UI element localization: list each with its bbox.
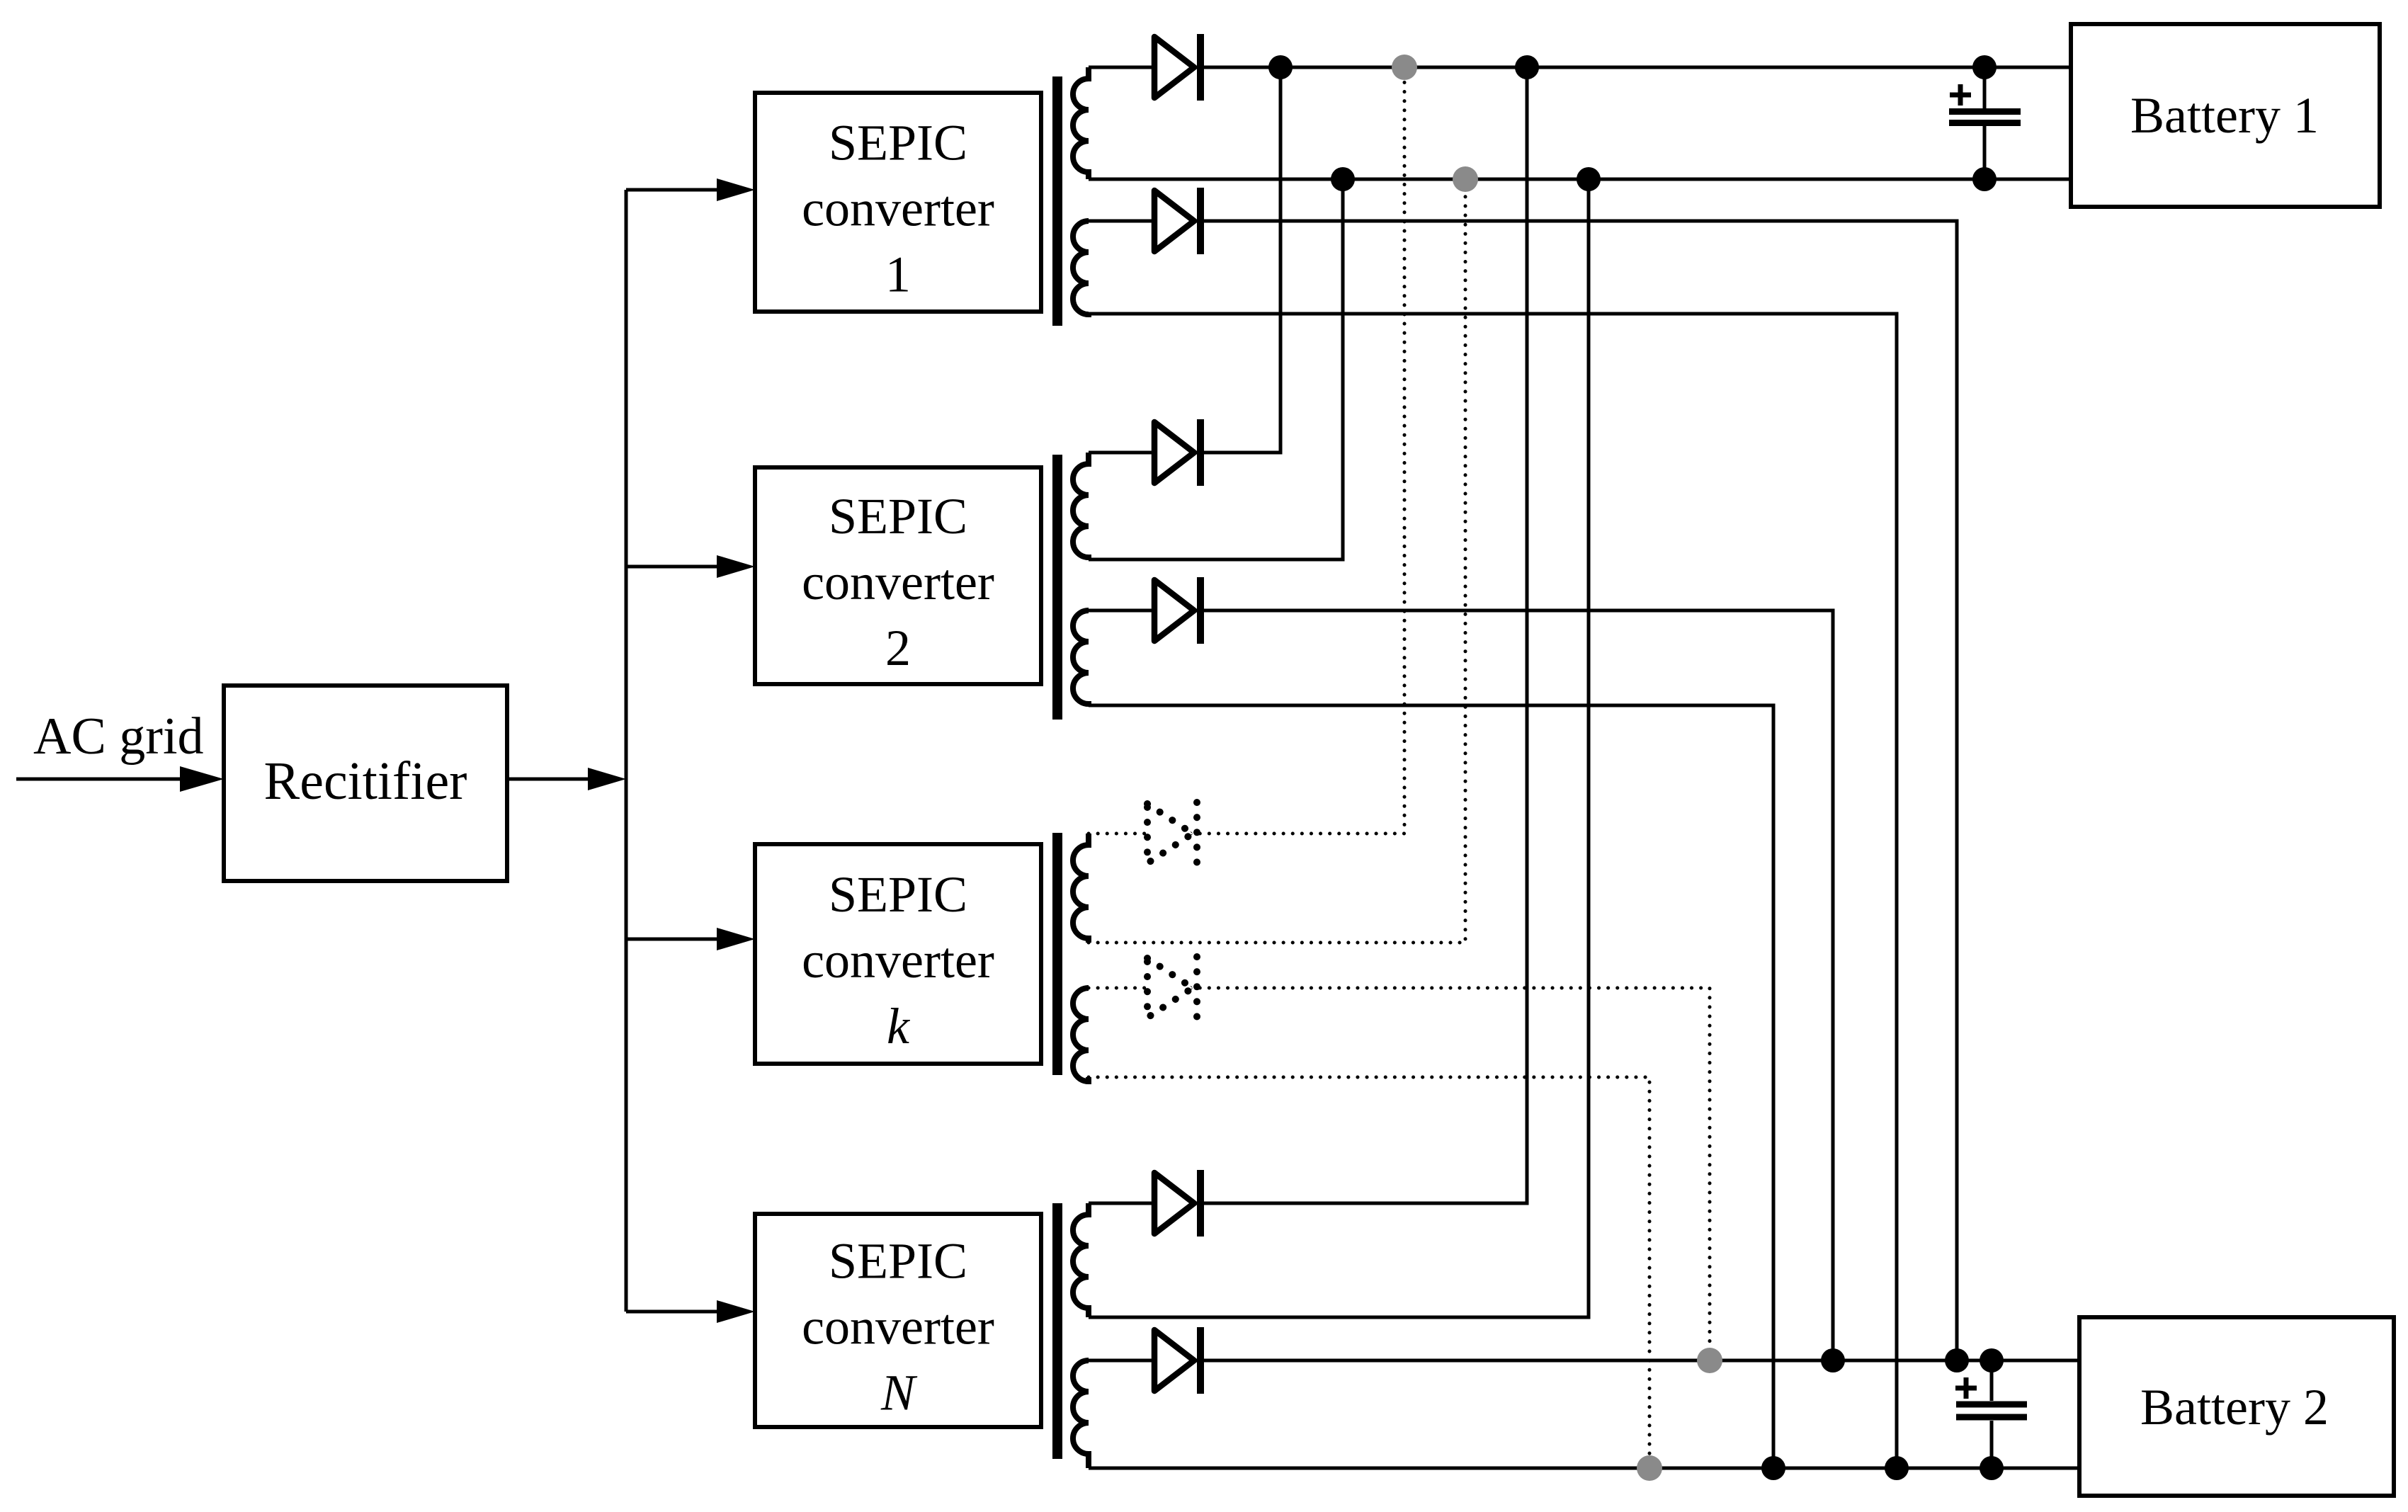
junction 2A/Battery1- [1331, 167, 1355, 191]
wire winding NA return to Battery1 - [1089, 179, 1589, 1317]
junction 2B/Battery2- [1761, 1456, 1785, 1480]
arrow into SEPIC converter 2 [626, 565, 721, 569]
svg-text:AC grid: AC grid [33, 707, 204, 766]
Battery 2 box [2079, 1317, 2394, 1496]
capacitor C1 + polarity [1950, 93, 1971, 98]
wire DNa output to Battery1 + [1089, 67, 1527, 1203]
winding NA [1073, 1203, 1089, 1317]
svg-text:Battery 1: Battery 1 [2130, 87, 2319, 144]
wire Battery1 + bus [1089, 66, 2071, 69]
arrow into SEPIC converter k [626, 938, 721, 941]
svg-text:converter: converter [802, 181, 994, 237]
diode DNa [1154, 1173, 1194, 1234]
wire Dkb output to Battery2 + (dotted) [1089, 988, 1710, 1360]
arrow into SEPIC converter N [626, 1310, 721, 1314]
winding NB [1073, 1360, 1089, 1468]
transformer T2 core bar [1052, 455, 1062, 720]
junction D2b/Battery2+ [1821, 1348, 1845, 1372]
SEPIC converter 2 box [755, 467, 1041, 684]
diode Dkb (dotted) [1147, 958, 1193, 1018]
wire Battery2 - bus [1089, 1467, 2079, 1470]
svg-text:2: 2 [885, 620, 911, 676]
svg-text:SEPIC: SEPIC [829, 115, 967, 171]
wire winding 2A return to Battery1 - [1089, 179, 1343, 559]
wire D2a output to Battery1 + [1089, 67, 1280, 453]
winding 2B [1073, 610, 1089, 705]
junction DNa/Battery1+ [1515, 55, 1539, 79]
svg-text:SEPIC: SEPIC [829, 488, 967, 545]
AC grid input arrow [16, 778, 184, 781]
svg-text:k: k [887, 998, 911, 1055]
diode D2b [1154, 580, 1194, 641]
diode Dka (dotted) [1147, 804, 1193, 863]
svg-text:SEPIC: SEPIC [829, 866, 967, 923]
capacitor C2 leads [1990, 1360, 1994, 1401]
junction C1/Battery1- [1972, 167, 1997, 191]
capacitor C1 plates [1949, 108, 2021, 115]
diode DNb [1154, 1330, 1194, 1391]
rectifier box [224, 686, 507, 881]
diode D1a [1154, 37, 1194, 98]
wire winding 1B return to Battery2 - [1089, 314, 1897, 1468]
svg-text:converter: converter [802, 1299, 994, 1355]
junction NA/Battery1- [1577, 167, 1601, 191]
diode D1b [1154, 191, 1194, 251]
SEPIC converter k box [755, 844, 1041, 1064]
capacitor C2 plates [1956, 1402, 2027, 1408]
junction C2/Battery2+ [1980, 1348, 2004, 1372]
winding 2A [1073, 453, 1089, 559]
SEPIC converter 1 box [755, 93, 1041, 312]
wire winding 2B return to Battery2 - [1089, 705, 1773, 1468]
winding kB [1073, 988, 1089, 1081]
Battery 1 box [2071, 24, 2380, 207]
arrow into SEPIC converter 1 [626, 188, 721, 192]
junction C1/Battery1+ [1972, 55, 1997, 79]
capacitor C2 + polarity [1955, 1386, 1977, 1391]
wire Battery1 - bus [1089, 178, 2071, 181]
wire Battery2 + bus [1089, 1359, 2079, 1363]
svg-text:N: N [880, 1365, 918, 1421]
wire winding kA return to Battery1 - (dotted) [1089, 179, 1465, 943]
SEPIC converter N box [755, 1214, 1041, 1427]
winding 1B [1073, 221, 1089, 314]
junction D1b/Battery2+ [1945, 1348, 1969, 1372]
junction 1B/Battery2- [1885, 1456, 1909, 1480]
svg-text:Battery 2: Battery 2 [2140, 1379, 2329, 1436]
winding 1A [1073, 67, 1089, 179]
wire rectifier output to bus [507, 778, 592, 781]
transformer TN core bar [1052, 1203, 1062, 1459]
junction kA/Battery1- (gray) [1453, 166, 1478, 192]
capacitor C1 leads [1983, 67, 1987, 108]
wire D2b output to Battery2 + [1089, 610, 1833, 1360]
svg-text:converter: converter [802, 932, 994, 989]
junction kB/Battery2- (gray) [1637, 1455, 1662, 1481]
wire winding kB return to Battery2 - (dotted) [1089, 1077, 1649, 1468]
input bus vertical wire [625, 190, 628, 1312]
diode D2a [1154, 422, 1194, 483]
junction Dkb/Battery2+ (gray) [1697, 1348, 1722, 1373]
svg-text:Recitifier: Recitifier [264, 751, 467, 811]
transformer Tk core bar [1052, 833, 1062, 1075]
junction D2a/Battery1+ [1268, 55, 1293, 79]
svg-text:SEPIC: SEPIC [829, 1233, 967, 1290]
winding kA [1073, 834, 1089, 943]
wire D1b output to Battery2 + [1089, 221, 1957, 1360]
junction C2/Battery2- [1980, 1456, 2004, 1480]
svg-text:converter: converter [802, 554, 994, 610]
svg-text:1: 1 [885, 246, 911, 303]
junction Dka/Battery1+ (gray) [1392, 55, 1417, 80]
transformer T1 core bar [1052, 76, 1062, 326]
wire Dka output to Battery1 + (dotted) [1089, 67, 1404, 834]
